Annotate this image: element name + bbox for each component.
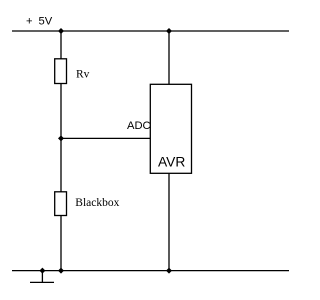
- node junction ADC tap: [58, 135, 64, 141]
- wire top +5V rail: [12, 30, 289, 32]
- ground: [30, 271, 54, 283]
- label +5V: [26, 16, 53, 28]
- resistor Blackbox: [55, 192, 67, 216]
- node junction top-right: [166, 28, 172, 34]
- resistor Rv: [55, 59, 67, 84]
- svg-text:Rv: Rv: [76, 69, 90, 81]
- wire right vertical branch: [168, 31, 170, 271]
- IC U1 AVR: [150, 84, 191, 173]
- node junction ground symbol: [39, 268, 45, 274]
- svg-text:AVR: AVR: [158, 155, 185, 170]
- svg-text:5V: 5V: [39, 16, 53, 28]
- svg-text:Blackbox: Blackbox: [75, 197, 119, 209]
- node junction bottom-left: [58, 268, 64, 274]
- wire ADC horizontal: [61, 137, 150, 139]
- svg-text:ADC: ADC: [127, 120, 151, 132]
- node junction top-left: [58, 28, 64, 34]
- wire bottom ground rail: [12, 270, 289, 272]
- wire left vertical branch: [60, 31, 62, 271]
- svg-text:+: +: [26, 16, 33, 28]
- node junction bottom-right: [166, 268, 172, 274]
